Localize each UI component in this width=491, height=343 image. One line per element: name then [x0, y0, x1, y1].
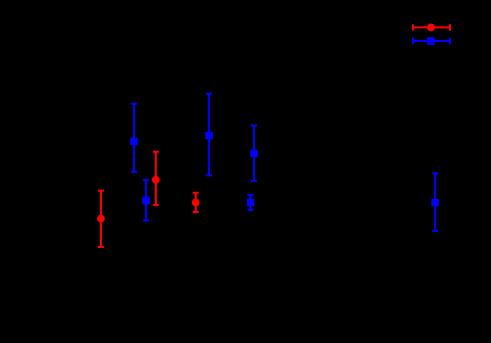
- blue errorbar point 3: [205, 94, 212, 176]
- legend blue sample: [413, 37, 450, 45]
- red errorbar point 1: [97, 191, 105, 247]
- blue errorbar point 5: [247, 195, 254, 210]
- legend red sample: [413, 24, 450, 32]
- blue errorbar point 1: [130, 104, 137, 172]
- red errorbar point 2: [152, 152, 160, 205]
- red errorbar point 3: [192, 193, 200, 212]
- blue errorbar point 2: [142, 180, 149, 221]
- blue errorbar point 4: [250, 126, 257, 181]
- blue errorbar point 6: [431, 173, 438, 231]
